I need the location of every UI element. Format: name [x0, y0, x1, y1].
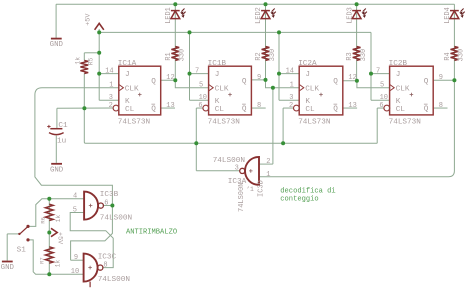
svg-text:LED3: LED3	[346, 7, 354, 24]
junction IC1A J	[97, 72, 101, 76]
junction IC2A CLK decode	[271, 86, 275, 90]
wire IC1B Q to IC2A CLK	[251, 80, 299, 88]
svg-text:C1: C1	[58, 122, 68, 130]
svg-text:5: 5	[199, 82, 203, 90]
svg-text:CL: CL	[305, 106, 315, 114]
LED LED2	[261, 9, 276, 19]
wire +5V rail	[99, 31, 371, 33]
ground GND S1	[2, 261, 13, 263]
svg-text:GND: GND	[1, 264, 15, 272]
junction rail IC2A tie	[277, 30, 281, 34]
wire pullup column node A-B	[48, 199, 50, 274]
svg-text:14: 14	[105, 67, 113, 75]
resistor R6 1k	[45, 204, 53, 220]
svg-text:74LS00N: 74LS00N	[213, 157, 245, 165]
svg-text:IC3D: IC3D	[258, 180, 266, 197]
svg-text:LED2: LED2	[255, 7, 263, 24]
svg-text:R4: R4	[444, 52, 452, 60]
resistor R5 1k	[80, 60, 88, 73]
svg-text:GND: GND	[50, 41, 64, 49]
junction IC1B Q R2	[264, 78, 268, 82]
svg-text:10: 10	[71, 268, 79, 276]
flip-flop IC1B	[203, 66, 252, 115]
LED LED1	[171, 9, 186, 19]
svg-text:Q: Q	[424, 106, 429, 114]
NAND gate IC3C	[84, 254, 103, 288]
svg-text:J: J	[305, 71, 310, 79]
junction IC3B output	[110, 204, 114, 208]
+5V symbol pullups	[51, 228, 57, 236]
wire S1 lower throw to node B / IC3C pin10	[28, 240, 84, 274]
wire CL IC1B vertical	[195, 108, 197, 143]
svg-text:2: 2	[109, 102, 113, 110]
svg-text:R5: R5	[87, 57, 94, 65]
wire IC1A Q to IC1B CLK	[161, 80, 209, 87]
svg-text:+5V: +5V	[84, 13, 92, 26]
NAND gate IC3A	[240, 157, 259, 185]
svg-text:J: J	[125, 71, 130, 79]
svg-text:74LS00N: 74LS00N	[238, 183, 246, 212]
resistor R4 330	[451, 47, 459, 61]
svg-text:Q: Q	[333, 78, 338, 86]
svg-text:R7: R7	[38, 257, 45, 264]
wire CL to IC3A output vertical	[195, 143, 197, 170]
wire IC2B J-K tie	[370, 32, 372, 100]
wire IC2B K pin	[371, 99, 390, 101]
svg-text:5: 5	[380, 82, 384, 90]
resistor R7 1k	[45, 247, 53, 263]
wire LED4 column	[453, 4, 455, 80]
origin mark IC3A	[249, 169, 253, 173]
wire IC2A Qbar stub	[343, 107, 357, 109]
svg-text:14: 14	[286, 67, 294, 75]
svg-text:’1: ’1	[246, 186, 254, 193]
svg-text:1: 1	[290, 82, 294, 90]
wire CL IC2A stub	[283, 107, 294, 109]
svg-text:K: K	[125, 98, 130, 106]
junction rail-LED3	[355, 2, 359, 6]
junction rail IC1B tie	[188, 30, 192, 34]
svg-text:8: 8	[257, 102, 261, 110]
wire IC3B output stub	[103, 205, 112, 207]
junction IC1A Q R1	[173, 78, 177, 82]
junction +5V pullups	[47, 231, 51, 235]
wire IC3C pin9 stub	[71, 259, 85, 261]
origin mark IC1B	[228, 93, 232, 97]
wire IC3C out to IC3B pin5	[70, 213, 113, 268]
svg-text:IC2A: IC2A	[298, 60, 317, 68]
junction CL C1/R5	[82, 106, 86, 110]
wire R5 top branch	[84, 52, 99, 54]
junction node A	[47, 197, 51, 201]
resistor R2 330	[262, 47, 270, 61]
svg-text:S1: S1	[17, 247, 27, 255]
NAND gate IC3B	[84, 192, 103, 220]
svg-text:9: 9	[439, 74, 443, 82]
wire IC3A pin2 stub	[259, 163, 273, 165]
svg-text:12: 12	[166, 74, 174, 82]
svg-text:330: 330	[360, 49, 368, 61]
junction +5V rail feed	[97, 30, 101, 34]
svg-text:7: 7	[376, 67, 380, 75]
wire CL rail	[84, 142, 377, 143]
junction IC2A Q R3	[355, 79, 359, 83]
ground GND C1	[51, 163, 62, 165]
svg-text:1k: 1k	[55, 215, 62, 223]
svg-text:CL: CL	[215, 106, 225, 114]
svg-text:2: 2	[266, 158, 270, 166]
svg-text:J: J	[396, 71, 401, 79]
wire +5V feed / IC1A J-K tie	[98, 29, 100, 100]
svg-text:IC3C: IC3C	[98, 254, 117, 262]
junction CL rail IC1B	[194, 141, 198, 145]
svg-text:J: J	[215, 71, 220, 79]
wire IC2A Q to IC2B CLK	[343, 81, 390, 88]
svg-text:9: 9	[74, 254, 78, 262]
junction IC2B J	[369, 72, 373, 76]
svg-text:330: 330	[179, 49, 187, 61]
svg-text:8: 8	[103, 262, 107, 270]
wire IC2B J pin	[371, 73, 390, 75]
svg-text:CLK: CLK	[305, 85, 319, 93]
svg-text:330: 330	[458, 49, 466, 61]
junction rail-LED1	[173, 2, 177, 6]
wire IC1A K pin	[99, 99, 119, 101]
wire CL IC1B stub	[196, 107, 203, 109]
origin mark IC3C	[88, 266, 92, 270]
wire CL IC2A vertical	[282, 108, 284, 143]
svg-text:+5V: +5V	[55, 232, 63, 245]
svg-text:CL: CL	[125, 106, 135, 114]
junction IC1B J	[188, 72, 192, 76]
wire top rail (LED cathode rail)	[56, 3, 454, 5]
svg-text:IC1B: IC1B	[208, 60, 227, 68]
svg-text:GND: GND	[50, 166, 64, 174]
svg-text:LED1: LED1	[165, 7, 173, 24]
wire LED2 column	[265, 4, 267, 80]
wire IC1B J pin	[190, 73, 209, 75]
wire IC2A J pin	[279, 73, 299, 75]
wire IC2B Q pin	[433, 79, 454, 81]
svg-text:R2: R2	[255, 52, 263, 60]
svg-text:Q: Q	[242, 78, 247, 86]
wire IC2A K pin	[279, 99, 299, 101]
wire S1 upper throw to node A / IC3B pin4	[28, 199, 84, 227]
svg-text:IC1A: IC1A	[118, 60, 137, 68]
wire clock net IC1A-CLK to IC3B output	[35, 88, 119, 206]
svg-text:1: 1	[266, 171, 270, 179]
wire IC3A pin1 to IC2B Q loop	[259, 80, 454, 177]
junction CL rail IC2A	[281, 141, 285, 145]
LED LED3	[352, 9, 367, 19]
svg-text:Q: Q	[424, 78, 429, 86]
svg-text:13: 13	[348, 102, 356, 110]
svg-text:ANTIRIMBALZO: ANTIRIMBALZO	[126, 228, 177, 236]
svg-text:9: 9	[257, 74, 261, 82]
origin mark IC2B	[410, 93, 414, 97]
svg-text:4: 4	[73, 193, 77, 201]
wire R5 bottom to CL net	[83, 74, 85, 143]
svg-text:LED4: LED4	[444, 7, 452, 24]
svg-text:IC3B: IC3B	[100, 191, 119, 199]
svg-text:1k: 1k	[54, 260, 61, 268]
svg-text:330: 330	[269, 49, 277, 61]
svg-text:74LS73N: 74LS73N	[208, 118, 240, 126]
junction node B	[47, 272, 51, 276]
svg-text:Q: Q	[333, 106, 338, 114]
junction R5 branch	[97, 51, 101, 55]
wire LED3 column	[356, 4, 358, 81]
svg-text:2: 2	[289, 102, 293, 110]
svg-text:13: 13	[166, 102, 174, 110]
svg-text:6: 6	[198, 102, 202, 110]
svg-text:74LS73N: 74LS73N	[389, 118, 421, 126]
svg-text:CLK: CLK	[125, 85, 139, 93]
junction rail-LED2	[264, 2, 268, 6]
svg-text:74LS00N: 74LS00N	[100, 214, 132, 222]
svg-text:CLK: CLK	[215, 85, 229, 93]
svg-text:R3: R3	[346, 52, 354, 60]
wire IC1B Qbar stub	[251, 107, 265, 109]
svg-text:decodifica di: decodifica di	[280, 187, 335, 195]
svg-text:K: K	[396, 98, 401, 106]
flip-flop IC2B	[384, 66, 433, 115]
switch S1	[18, 225, 29, 242]
svg-text:IC2B: IC2B	[389, 60, 408, 68]
svg-text:R6: R6	[39, 217, 46, 224]
svg-text:Q: Q	[151, 78, 156, 86]
svg-text:K: K	[305, 98, 310, 106]
wire S1 common	[7, 233, 19, 235]
wire IC3A pin2 vertical	[272, 88, 274, 164]
svg-text:Q: Q	[151, 106, 156, 114]
wire IC1A Qbar stub	[161, 107, 175, 109]
svg-text:74LS73N: 74LS73N	[298, 118, 330, 126]
svg-text:CL: CL	[396, 106, 406, 114]
svg-text:R1: R1	[165, 52, 173, 60]
svg-text:7: 7	[195, 67, 199, 75]
wire R5 top lead	[83, 53, 85, 61]
capacitor C1 1u	[47, 125, 63, 163]
ground GND top-left	[51, 38, 62, 40]
wire IC1B K pin	[190, 99, 209, 101]
origin mark IC1A	[138, 93, 142, 97]
svg-text:74LS73N: 74LS73N	[118, 118, 150, 126]
LED LED4	[450, 9, 465, 19]
+5V symbol top	[95, 23, 104, 29]
wire IC2A J-K tie	[278, 32, 280, 100]
junction IC2B Q R4	[452, 78, 456, 82]
svg-text:8: 8	[439, 102, 443, 110]
wire IC2B Qbar stub	[433, 107, 447, 109]
wire LED1 column	[174, 4, 176, 80]
flip-flop IC2A	[294, 66, 343, 115]
wire IC3A output pin3	[196, 170, 239, 172]
origin mark IC2A	[319, 93, 323, 97]
svg-text:5: 5	[73, 206, 77, 214]
wire CL IC2B vertical	[376, 108, 378, 143]
flip-flop IC1A	[113, 66, 161, 115]
wire CL IC2B stub	[377, 107, 384, 109]
wire GND1 stub	[55, 4, 57, 38]
wire CL IC1A	[57, 107, 114, 109]
svg-text:1u: 1u	[57, 138, 66, 146]
junction IC2A J	[277, 72, 281, 76]
wire IC3B out to IC3C pin9	[71, 206, 113, 261]
resistor R3 330	[353, 47, 361, 61]
resistor R1 330	[171, 47, 179, 61]
wire IC1A J pin	[99, 73, 119, 75]
svg-text:3: 3	[235, 165, 239, 173]
svg-text:12: 12	[348, 74, 356, 82]
svg-text:6: 6	[379, 102, 383, 110]
origin mark IC3B	[89, 204, 93, 208]
svg-text:1: 1	[109, 82, 113, 90]
wire S1 GND stub	[6, 234, 8, 261]
svg-text:conteggio: conteggio	[280, 195, 318, 203]
wire C1 top lead	[56, 108, 58, 128]
svg-text:Q: Q	[242, 106, 247, 114]
svg-text:CLK: CLK	[396, 85, 410, 93]
svg-text:74LS00N: 74LS00N	[98, 276, 130, 284]
wire IC1B J-K tie	[189, 32, 191, 100]
svg-text:K: K	[215, 98, 220, 106]
svg-text:6: 6	[104, 199, 108, 207]
svg-text:1k: 1k	[75, 57, 82, 65]
